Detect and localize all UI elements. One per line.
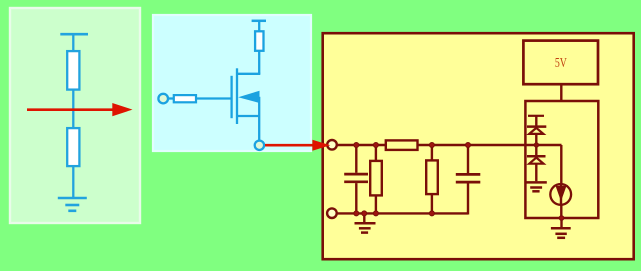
gate wire bbox=[196, 97, 231, 99]
node dot top c bbox=[429, 143, 434, 148]
wire source to output bbox=[258, 97, 260, 141]
5V source box U1 bbox=[523, 41, 598, 85]
resistor R6 bottom lead bbox=[375, 195, 377, 213]
diode D1 triangle bbox=[529, 128, 543, 134]
wire T-bar to D1 bbox=[535, 116, 537, 127]
node: input terminal circle bbox=[158, 94, 168, 104]
resistor R5 (series) bbox=[386, 140, 418, 150]
ground bbox=[58, 197, 87, 200]
transistor Q1 body arrow bbox=[238, 91, 259, 103]
red signal arrow 1 bbox=[27, 103, 133, 116]
diode D2 triangle bbox=[529, 158, 543, 164]
current source I1 circle bbox=[550, 184, 571, 205]
resistor R4 (gate) bbox=[174, 95, 196, 102]
terminal T-bar diode chain bbox=[528, 115, 544, 117]
node dot bottom d bbox=[429, 211, 434, 216]
resistor R7 top lead bbox=[431, 145, 433, 160]
wire drain bbox=[258, 51, 260, 74]
ground G1 bbox=[363, 213, 365, 223]
panel: MOSFET stage (pale cyan) bbox=[153, 15, 311, 151]
terminal T-bar top bbox=[60, 33, 88, 36]
ground G3 bbox=[560, 218, 562, 228]
bottom rail wire bbox=[332, 212, 468, 214]
node dot bottom a bbox=[354, 211, 359, 216]
terminal T-bar top bbox=[252, 20, 266, 23]
capacitor C1 bottom lead bbox=[355, 183, 357, 213]
wire R5 to current source branch bbox=[418, 144, 562, 146]
wire current source branch bbox=[560, 145, 562, 218]
wire bbox=[72, 34, 74, 51]
node dot current source bottom bbox=[559, 216, 564, 221]
node dot bottom b bbox=[362, 211, 367, 216]
resistor R6 top lead bbox=[375, 145, 377, 161]
resistor R6 bbox=[370, 161, 382, 196]
wire bbox=[72, 166, 74, 198]
node dot bottom c bbox=[373, 211, 378, 216]
resistor R7 bbox=[426, 160, 438, 194]
node dot top b bbox=[373, 143, 378, 148]
transistor Q1 gate bar bbox=[230, 76, 232, 118]
wire D1 to D2 bbox=[535, 134, 537, 156]
node: input terminal circle bbox=[327, 140, 337, 150]
capacitor C2 top lead bbox=[467, 145, 469, 173]
node dot top d bbox=[466, 143, 471, 148]
panel: regulator (yellow, maroon border) bbox=[323, 33, 634, 259]
node dot diode junction bbox=[534, 143, 538, 147]
resistor R1 bbox=[67, 51, 79, 90]
panel: input divider (pale green) bbox=[10, 8, 140, 223]
red signal arrow 2 bbox=[265, 140, 330, 151]
wire D2 to ground bbox=[535, 164, 537, 182]
transistor Q1 channel bar bbox=[236, 68, 238, 124]
transistor Q1 drain stub bbox=[237, 73, 260, 75]
capacitor C2 bottom lead bbox=[467, 183, 469, 214]
capacitor C1 bbox=[344, 173, 368, 176]
wire input to R5 bbox=[337, 144, 386, 146]
junction dots bbox=[354, 143, 564, 221]
resistor R7 bottom lead bbox=[431, 194, 433, 213]
node: bottom terminal circle bbox=[327, 208, 337, 218]
resistor R2 bbox=[67, 128, 79, 166]
diode D1 cathode bar bbox=[527, 125, 546, 128]
current source I1 arrow bbox=[556, 186, 567, 202]
svg-text:5V: 5V bbox=[555, 55, 567, 70]
ground G2 bbox=[525, 181, 547, 184]
wire bbox=[72, 90, 74, 129]
node dot top a bbox=[354, 143, 359, 148]
resistor R3 (drain load) bbox=[255, 31, 263, 51]
regulator block box bbox=[525, 101, 598, 218]
node: output terminal circle bbox=[255, 141, 264, 150]
transistor Q1 source stub bbox=[237, 115, 259, 117]
capacitor C2 bbox=[456, 173, 481, 176]
diode D2 cathode bar bbox=[527, 155, 546, 158]
wire bbox=[168, 97, 174, 99]
capacitor C1 top lead bbox=[355, 145, 357, 173]
wire 5V to block bbox=[560, 84, 562, 101]
wire bbox=[258, 21, 260, 32]
